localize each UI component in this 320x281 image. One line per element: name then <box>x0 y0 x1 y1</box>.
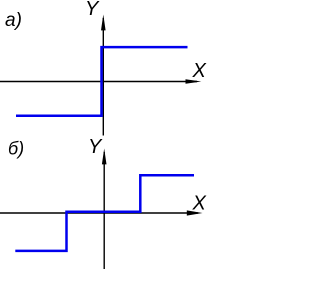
svg-text:X: X <box>192 60 207 82</box>
X axis arrowhead (graph a) <box>186 79 202 84</box>
svg-text:б): б) <box>8 139 24 159</box>
Y axis arrowhead (graph a) <box>101 15 106 31</box>
Y axis (graph b) <box>103 152 105 269</box>
staircase curve (graph b): low level, middle level, high level <box>15 175 194 251</box>
X axis (graph a) <box>0 81 197 83</box>
X axis (graph b) <box>0 212 198 214</box>
X axis arrowhead (graph b) <box>187 210 203 215</box>
svg-text:а): а) <box>5 10 22 31</box>
svg-text:Y: Y <box>85 0 100 20</box>
svg-text:Y: Y <box>88 136 103 158</box>
Y axis arrowhead (graph b) <box>102 149 107 165</box>
step curve (graph a): negative level, jump at 0, positive level <box>16 47 188 116</box>
Y axis (graph a) <box>102 18 104 136</box>
svg-text:X: X <box>192 193 207 215</box>
